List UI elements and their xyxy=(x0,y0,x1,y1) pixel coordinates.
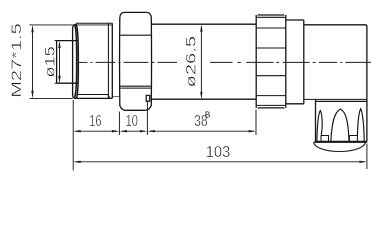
svg-text:ø15: ø15 xyxy=(42,46,58,78)
svg-text:103: 103 xyxy=(206,144,231,161)
svg-text:16: 16 xyxy=(89,113,101,130)
svg-text:B: B xyxy=(205,111,210,120)
svg-text:M27*1.5: M27*1.5 xyxy=(9,23,25,98)
svg-text:10: 10 xyxy=(126,113,138,130)
svg-text:ø26.5: ø26.5 xyxy=(184,36,200,88)
